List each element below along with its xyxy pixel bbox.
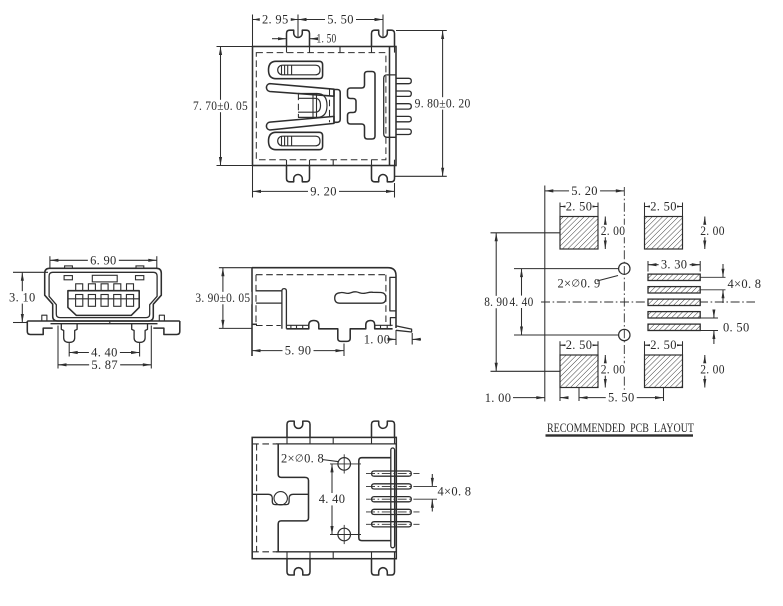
V1 V-spring inner beam (298, 94, 327, 118)
V5 dims 2.50 (559, 203, 561, 217)
V5 dim 4.40 (514, 268, 619, 270)
svg-text:4×0. 8: 4×0. 8 (728, 277, 762, 291)
V2 dim 6.90 (50, 259, 157, 261)
V2 right bracket foot (153, 321, 180, 335)
V4 body outline (252, 437, 396, 558)
V3 right pocket lower (390, 318, 396, 327)
V1 upper latch slot (278, 65, 320, 75)
svg-text:9. 80±0. 20: 9. 80±0. 20 (415, 96, 471, 110)
V1 top mounting lug right (372, 30, 395, 46)
svg-text:2. 95: 2. 95 (262, 13, 289, 27)
V3 latch front bar (282, 289, 287, 329)
V5 reference edge line (544, 186, 546, 402)
svg-text:1. 00: 1. 00 (364, 332, 391, 346)
svg-text:5. 20: 5. 20 (571, 184, 598, 198)
V1 dim 2.95 (253, 19, 299, 21)
V2 left side step (42, 315, 47, 321)
V1 center detent bracket (348, 72, 376, 140)
svg-text:2. 50: 2. 50 (650, 338, 677, 352)
svg-text:4. 40: 4. 40 (319, 492, 346, 506)
V1 dim 9.20 (253, 190, 395, 192)
V1 dim 9.80±0.20 (442, 31, 444, 177)
V5 dim 1.00 (559, 388, 561, 402)
V1 upper latch tab hatch (281, 65, 283, 75)
svg-text:2. 50: 2. 50 (650, 200, 677, 214)
V1 lower latch spring outer (269, 132, 323, 149)
V4 hole circles with center marks (338, 458, 351, 471)
svg-text:2×∅0. 8: 2×∅0. 8 (281, 451, 324, 465)
V5 dim 3.30 (647, 261, 649, 272)
V1 extension lines (252, 15, 254, 47)
svg-text:2. 50: 2. 50 (566, 338, 593, 352)
svg-text:7. 70±0. 05: 7. 70±0. 05 (193, 99, 248, 113)
V2 center top block (92, 275, 117, 282)
V4 five pins with centerlines (372, 471, 412, 476)
V5 pad bottom-right (645, 355, 683, 388)
V1 right wall inner line (389, 47, 391, 166)
V2 solder leg right (132, 324, 148, 343)
V1 top mounting lug left (287, 30, 310, 46)
V5 pad top-right (645, 217, 683, 250)
V3 pin end tick (411, 333, 413, 345)
svg-text:5. 50: 5. 50 (327, 13, 354, 27)
V1 shell seam ticks (339, 47, 341, 53)
V2 inner shell (49, 272, 157, 317)
V1 bottom mounting lug right (372, 166, 395, 182)
svg-text:5. 87: 5. 87 (91, 358, 118, 372)
V3 contact tail cells right (375, 324, 393, 326)
V1 V-spring contact fold lines (312, 94, 314, 118)
svg-text:2. 00: 2. 00 (601, 224, 626, 238)
V5 dim 0.50 (713, 312, 715, 319)
svg-text:3. 10: 3. 10 (9, 290, 36, 304)
V5 pad top-left (560, 217, 598, 250)
V4 dim 4x0.8 (420, 485, 438, 487)
V2 outer shell (45, 268, 162, 321)
V3 contact tail cells left (287, 324, 309, 326)
V1 lower latch tab hatch (281, 136, 283, 146)
V2 mating cavity (68, 291, 139, 316)
V3 hidden dashed top (256, 274, 386, 276)
V3 wavy spring slot (335, 292, 386, 303)
V4 spring hole circle (274, 492, 287, 505)
V2 dim 4.40 (69, 352, 139, 354)
V1 hidden (dashed) body inset (256, 53, 386, 160)
V1 dim 7.70±0.05 (220, 47, 222, 166)
svg-text:3. 30: 3. 30 (661, 258, 688, 272)
V1 contact holder strip (384, 75, 396, 137)
V2 bottom flange lines (27, 320, 180, 322)
svg-text:0. 50: 0. 50 (723, 320, 750, 334)
V4 top lugs (287, 421, 310, 437)
V1 dim 1.50 (272, 38, 287, 40)
V3 rear solder pin (396, 326, 412, 332)
V2 right side step (159, 315, 164, 321)
svg-text:9. 20: 9. 20 (310, 184, 337, 198)
V5 dims 2.00 (604, 217, 606, 250)
svg-text:2×∅0. 9: 2×∅0. 9 (557, 277, 600, 291)
V2 top edge lug tabs (65, 266, 73, 268)
V2 dim 5.87 (58, 364, 151, 366)
svg-text:4. 40: 4. 40 (510, 295, 534, 309)
V5 vertical centerline (623, 187, 625, 391)
V3 hidden dashed bottom-left (256, 325, 281, 327)
V3 dim 3.90±0.05 (222, 268, 224, 329)
V4 spring cradle line (252, 494, 308, 504)
V2 solder leg left (61, 324, 77, 343)
V1 V-spring tip bar (334, 90, 340, 123)
V1 bottom mounting lug left (287, 166, 310, 182)
svg-text:5. 90: 5. 90 (285, 344, 312, 358)
V2 small inner tabs (64, 276, 72, 280)
V5 pad bottom-left (560, 355, 598, 388)
V3 bottom profile (286, 321, 392, 342)
V1 dim 5.50 (298, 19, 383, 21)
V1 V-spring bottom arm (266, 116, 334, 130)
V1 upper latch spring outer (269, 61, 323, 78)
svg-text:2. 50: 2. 50 (566, 200, 593, 214)
V4 dim 4.40 (331, 464, 333, 535)
V2 left bracket foot (27, 321, 52, 335)
V2 contact teeth (76, 284, 83, 291)
svg-text:2. 00: 2. 00 (601, 363, 626, 377)
V1 lug base ticks (286, 47, 288, 53)
V5 pad extension stubs (700, 276, 725, 278)
V5 dim 5.20 (545, 190, 625, 192)
V3 top edge and right edge (252, 268, 396, 328)
V4 lug base ticks (286, 437, 288, 444)
V1 V-spring top arm (266, 84, 334, 97)
V1 body outline (253, 47, 397, 166)
V4 contact pocket (359, 458, 391, 541)
V3 right pocket upper (390, 277, 396, 311)
V1 V-spring innermost beam (298, 98, 321, 112)
svg-text:6. 90: 6. 90 (90, 253, 117, 267)
V4 inner bottom line (252, 551, 276, 553)
svg-text:1. 00: 1. 00 (485, 391, 512, 405)
V3 latch box lines (256, 290, 282, 292)
svg-text:2. 00: 2. 00 (700, 224, 725, 238)
svg-text:4×0. 8: 4×0. 8 (438, 485, 472, 499)
V2 cavity mid line (68, 298, 139, 300)
svg-text:1. 50: 1. 50 (317, 32, 337, 46)
svg-text:2. 00: 2. 00 (700, 363, 725, 377)
V5 dim 5.50 (578, 388, 580, 402)
V3 hidden dashed right (385, 275, 387, 322)
V1 lower latch slot (278, 136, 320, 146)
V5 hole circles (619, 263, 630, 274)
svg-text:3. 90±0. 05: 3. 90±0. 05 (195, 291, 250, 305)
V4 hidden dashed left inset (256, 444, 258, 552)
V5 horizontal centerline (541, 301, 755, 303)
svg-text:5. 50: 5. 50 (608, 391, 635, 405)
V5 dim 4x0.8 (722, 264, 724, 277)
V3 dim 5.90 (252, 350, 344, 352)
V3 left edge (251, 268, 253, 356)
V3 extension lines (219, 267, 252, 269)
svg-text:RECOMMENDED PCB LAYOUT: RECOMMENDED PCB LAYOUT (547, 421, 694, 435)
V2 dim 3.10 (21, 272, 23, 322)
V4 bottom lugs (287, 559, 310, 575)
V1 five contact pins (396, 78, 411, 83)
V1 V-spring hidden edges (dashed) (297, 94, 299, 118)
V4 inner top line (252, 443, 276, 445)
V5 dim 8.90 (491, 232, 561, 234)
V5 five pin pads (648, 274, 700, 280)
V3 hidden dashed left (255, 275, 257, 326)
V4 shell seam ticks (332, 437, 334, 444)
svg-text:8. 90: 8. 90 (484, 295, 508, 309)
V2 extension lines (49, 256, 51, 268)
V4 stamped spring staircase (278, 444, 308, 552)
V4 right wall strip (391, 448, 395, 548)
